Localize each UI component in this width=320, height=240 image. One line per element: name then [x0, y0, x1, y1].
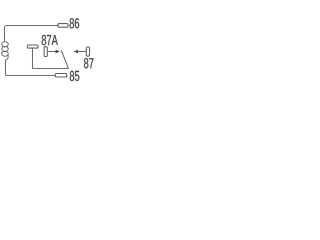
terminal 30 spade (common pole): [27, 45, 38, 48]
wire: coil bottom lead down and across to terminal 85: [6, 60, 56, 76]
wire: 87 contact arrow: [78, 51, 86, 53]
wire: coil top lead up and across to terminal 86: [5, 26, 58, 42]
relay coil: [2, 42, 9, 60]
terminal 85 spade: [55, 74, 67, 78]
wire: 87A contact arrow: [47, 51, 56, 53]
wire: terminal 30 stem: [32, 48, 34, 68]
label 85: [70, 71, 80, 81]
terminal 86 spade: [58, 24, 68, 28]
terminal 87 spade: [86, 47, 89, 56]
label 86: [70, 18, 80, 28]
label 87: [84, 58, 93, 68]
wire: switch rail: [33, 68, 69, 70]
switch arm (movable contact): [61, 50, 68, 68]
terminal 87A spade: [44, 47, 47, 57]
label 87A: [42, 35, 58, 45]
